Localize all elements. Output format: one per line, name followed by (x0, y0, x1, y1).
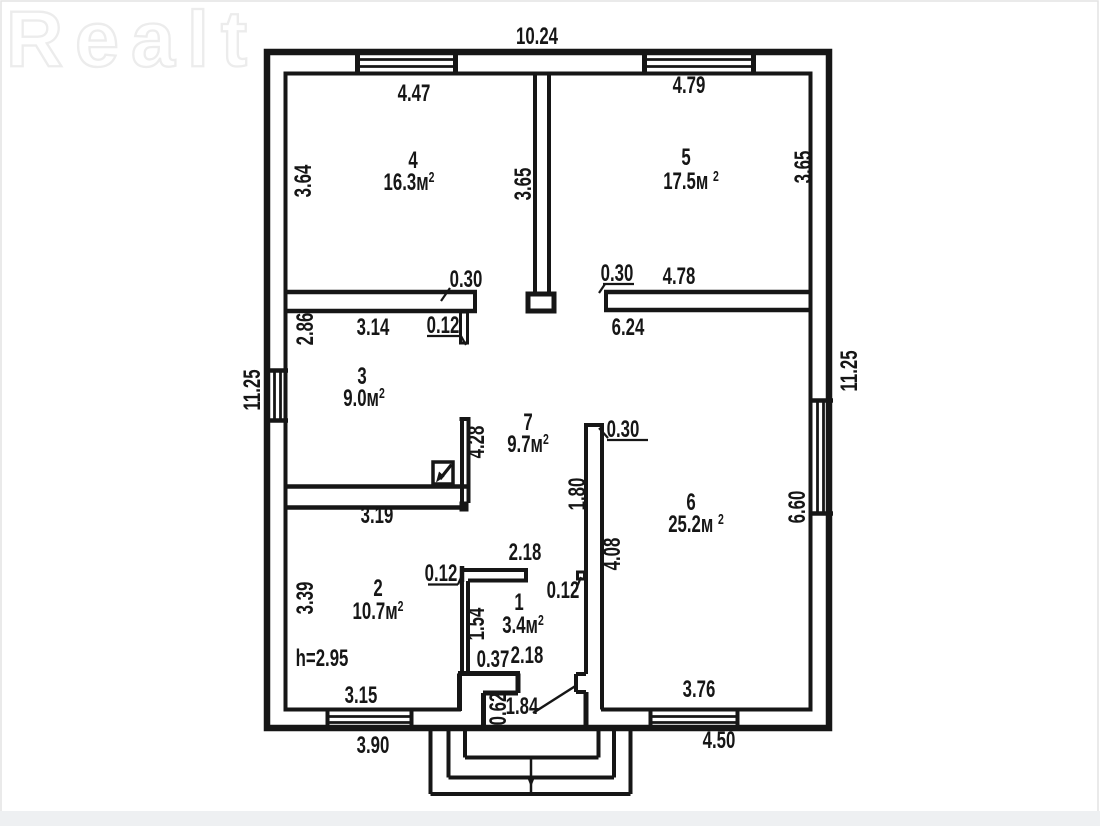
interior face left wall (284, 72, 288, 712)
wall stub below B (461, 312, 468, 343)
svg-text:3.15: 3.15 (345, 682, 378, 709)
svg-text:0.30: 0.30 (607, 416, 640, 443)
wall B rooms 4|3 top line (285, 290, 477, 295)
svg-text:3.4м2: 3.4м2 (502, 611, 544, 639)
window W5 left jamb (326, 709, 330, 731)
porch inner left (463, 730, 467, 758)
wall H vestibule top bar (458, 671, 520, 676)
wall C rooms 5|hall top line (604, 290, 810, 295)
wall G jog top (576, 672, 586, 676)
wall H lower left side (481, 693, 486, 728)
leader 0.12 partition F tail (458, 573, 463, 585)
svg-text:9.7м2: 9.7м2 (507, 430, 549, 458)
svg-text:3.19: 3.19 (361, 502, 394, 529)
wall E left line (460, 419, 464, 503)
window W4 top jamb (810, 398, 833, 403)
partition A end cap box (528, 294, 554, 311)
porch inner right (597, 730, 601, 758)
wall G room6 top cap (584, 423, 604, 427)
porch arrow head (527, 777, 535, 787)
door jamb stub on wall G (578, 572, 585, 579)
wall B rooms 4|3 bottom line (285, 309, 477, 314)
svg-text:1.84: 1.84 (506, 693, 539, 720)
svg-text:0.37: 0.37 (477, 646, 510, 673)
window W4 bottom jamb (810, 511, 833, 516)
svg-text:0.30: 0.30 (601, 260, 634, 287)
window W6 left jamb (649, 709, 653, 731)
svg-text:16.3м2: 16.3м2 (384, 168, 435, 196)
svg-text:9.0м2: 9.0м2 (343, 384, 385, 412)
svg-text:11.25: 11.25 (836, 350, 863, 391)
wall G jog left (574, 674, 578, 692)
porch middle left (447, 730, 451, 778)
partition F room1 top line (460, 568, 528, 572)
leader 0.30 wall G tail (599, 428, 608, 438)
wall G left line (584, 425, 588, 674)
room 1 left wall left line (460, 571, 464, 673)
leader 0.12 stub underline (427, 335, 461, 337)
svg-text:1.80: 1.80 (564, 478, 591, 511)
wall G lower segment (584, 692, 589, 728)
svg-text:10.24: 10.24 (516, 23, 558, 50)
svg-text:4.79: 4.79 (673, 72, 706, 99)
wall D rooms 3|2 bottom line (285, 505, 468, 510)
svg-text:0.12: 0.12 (547, 577, 580, 604)
porch outer bottom (431, 792, 631, 796)
svg-text:2.18: 2.18 (509, 539, 542, 566)
svg-text:2.86: 2.86 (292, 313, 319, 346)
svg-text:4.47: 4.47 (398, 80, 431, 107)
svg-text:6.60: 6.60 (784, 491, 811, 524)
window W1 right jamb (453, 50, 458, 73)
leader 0.30 room5 underline (603, 283, 634, 285)
window W6 right jamb (736, 709, 740, 731)
svg-text:5: 5 (681, 144, 690, 171)
ventilation arrow (440, 465, 452, 480)
svg-text:Realt: Realt (6, 0, 259, 83)
wall D end cap square (460, 502, 469, 512)
window W5 bottom wall mid line (327, 715, 412, 718)
window W6 bottom wall mid line (650, 715, 738, 718)
wall H middle bar (483, 691, 518, 696)
porch middle right (612, 730, 616, 778)
interior face bottom wall right segment (601, 708, 813, 712)
window W1 left jamb (355, 50, 360, 73)
leader 0.12 partition F underline (428, 583, 458, 585)
interior face right wall (809, 72, 813, 712)
window W2 right jamb (751, 50, 756, 73)
leader 0.12 stub hook (461, 336, 466, 345)
partition F room1 bottom line (468, 579, 528, 583)
watermark logo Realt (6, 0, 259, 83)
footer band (0, 811, 1100, 826)
leader 0.30 wall G underline (607, 439, 648, 441)
entrance door swing (533, 685, 577, 713)
svg-text:4.50: 4.50 (703, 727, 736, 754)
window W2 top wall sill line (644, 65, 754, 68)
window W5 bottom wall sill line (327, 721, 412, 724)
leader 0.30 top left (441, 288, 450, 301)
wall E top cap (460, 417, 471, 421)
wall G jog bottom (576, 690, 586, 694)
svg-text:3.64: 3.64 (290, 164, 317, 197)
svg-text:3.14: 3.14 (357, 314, 390, 341)
svg-text:3.90: 3.90 (357, 732, 390, 759)
svg-text:17.5м 2: 17.5м 2 (663, 167, 719, 195)
porch middle bottom (449, 776, 615, 780)
window W4 right wall sill line (822, 400, 825, 514)
svg-text:3.65: 3.65 (510, 168, 537, 201)
porch inner bottom (465, 756, 599, 760)
svg-text:1.54: 1.54 (463, 607, 490, 640)
partition A rooms 4|5 right line (547, 75, 551, 292)
ventilation arrow head (436, 472, 445, 483)
partition F left end bar (460, 566, 465, 582)
svg-text:25.2м 2: 25.2м 2 (668, 510, 724, 538)
window W2 top wall mid line (644, 58, 754, 61)
svg-text:3.39: 3.39 (292, 582, 319, 615)
svg-text:6.24: 6.24 (612, 314, 645, 341)
window W1 top wall mid line (357, 58, 456, 61)
wall H left side (457, 674, 462, 712)
svg-text:4.28: 4.28 (463, 426, 490, 459)
wall D rooms 3|2 top line (285, 484, 468, 489)
window W3 top jamb (265, 368, 288, 373)
leader 0.30 room5 tail (599, 284, 605, 293)
wall B right cap (473, 290, 477, 313)
svg-text:3.65: 3.65 (790, 151, 817, 184)
partition F right cap (524, 568, 528, 583)
wall E right line (467, 419, 471, 503)
svg-text:3.76: 3.76 (683, 676, 716, 703)
partition A rooms 4|5 left line (533, 75, 537, 292)
window W3 left wall mid line (273, 371, 276, 421)
svg-text:11.25: 11.25 (239, 369, 266, 410)
svg-text:10.7м2: 10.7м2 (353, 597, 404, 625)
wall C left cap (604, 290, 608, 312)
wall H right side (516, 674, 521, 694)
window W5 right jamb (410, 709, 414, 731)
window W2 left jamb (642, 50, 647, 73)
svg-text:2.18: 2.18 (511, 642, 544, 669)
svg-text:0.12: 0.12 (425, 560, 458, 587)
leader 0.12 wall G stub tail (575, 577, 581, 592)
porch outer left (429, 730, 433, 794)
window W3 left wall sill line (279, 371, 282, 421)
window W6 bottom wall sill line (650, 721, 738, 724)
wall G right line (600, 425, 604, 710)
interior face top wall (284, 72, 813, 76)
room 1 left wall right line (466, 581, 470, 673)
porch outer right (629, 730, 633, 794)
svg-text:0.30: 0.30 (450, 266, 483, 293)
interior face bottom wall left segment (284, 708, 462, 712)
window W4 right wall mid line (816, 400, 819, 514)
ventilation arrow box (433, 462, 453, 484)
svg-text:4.08: 4.08 (599, 538, 626, 571)
svg-text:4.78: 4.78 (663, 263, 696, 290)
exterior wall outer boundary (267, 52, 829, 728)
wall C rooms 5|hall bottom line (604, 308, 812, 313)
svg-text:0.12: 0.12 (427, 312, 460, 339)
svg-text:h=2.95: h=2.95 (296, 645, 349, 672)
window W3 bottom jamb (265, 418, 288, 423)
window W1 top wall sill line (357, 65, 456, 68)
porch entry arrow line (530, 758, 533, 794)
